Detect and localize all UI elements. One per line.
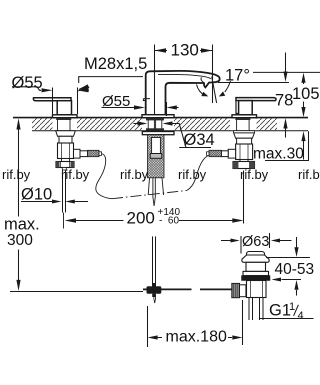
left valve bottom nut [62, 159, 70, 162]
dim 105 line [303, 81, 305, 109]
svg-text:Ø34: Ø34 [184, 131, 215, 149]
max300 bottom ref line [10, 291, 143, 293]
svg-text:G1: G1 [269, 302, 291, 320]
smooth tube inset [152, 138, 161, 154]
right valve side port [228, 149, 235, 158]
left shank through deck [56, 118, 71, 131]
78 arrows [283, 72, 287, 83]
M28x1,5 leader [79, 77, 143, 90]
105 arrows [301, 73, 305, 83]
svg-text:rif.by: rif.by [2, 167, 31, 182]
vertical pop-up rod lower [153, 236, 156, 288]
dim Ø55 left: leader and arrows [12, 87, 41, 91]
neck [246, 262, 266, 271]
svg-text:Ø55: Ø55 [12, 74, 43, 92]
max300 arrows [16, 118, 20, 129]
left pop-up rod Ø10 [63, 170, 66, 213]
tail pipe [247, 298, 266, 321]
stud wire tails [148, 178, 163, 195]
spout flange [142, 115, 174, 118]
svg-text:rif.by: rif.by [120, 167, 149, 182]
svg-text:max.180: max.180 [166, 329, 227, 346]
svg-text:rif.by: rif.by [61, 167, 90, 182]
Ø55 left arrows [42, 88, 53, 92]
max180 dim line [157, 337, 232, 339]
17deg arc arrowheads [201, 92, 208, 97]
left handle lever [33, 98, 71, 101]
side port [240, 285, 246, 297]
left handle body [57, 101, 71, 115]
svg-text:Ø63: Ø63 [242, 234, 269, 250]
svg-text:1: 1 [289, 301, 295, 313]
drain pop-up waste [232, 252, 270, 321]
pop-up rod needle (upper) [153, 178, 155, 206]
right valve bottom nut [240, 160, 248, 162]
Ø55 center arrow [134, 105, 145, 109]
max180 extensions [148, 300, 243, 347]
dim Ø34 arrows tails [134, 123, 139, 125]
svg-text:M28x1,5: M28x1,5 [84, 55, 147, 73]
M28 leader arrow [78, 84, 90, 91]
right handle flange [232, 115, 257, 118]
17deg angle vertex slant [212, 77, 217, 104]
dim 200 line [76, 220, 234, 222]
right handle lever [236, 98, 276, 101]
dim 200 right extension [243, 171, 245, 224]
maxx300 dim line [18, 129, 20, 281]
rubber seal [242, 276, 271, 281]
svg-text:Ø10: Ø10 [21, 186, 52, 204]
dim 78 line [285, 53, 287, 138]
dim 17 ref line [218, 82, 289, 84]
svg-text:200: 200 [127, 209, 155, 228]
deck bottom line [32, 130, 308, 132]
dim Ø63 [221, 240, 292, 242]
step ring [243, 271, 269, 275]
right handle body [239, 101, 253, 115]
dim 40-53 refs [266, 257, 310, 259]
left valve shank [59, 136, 72, 143]
arrowheads [16, 48, 305, 339]
svg-text:rif.by: rif.by [298, 167, 320, 182]
200 arrows [65, 218, 76, 222]
hose dash-dot centerline [112, 191, 187, 199]
body lower [247, 281, 267, 298]
svg-text:78: 78 [275, 92, 293, 110]
dim 130 extension lines [154, 45, 156, 116]
svg-text:17°: 17° [225, 67, 250, 85]
svg-text:105: 105 [292, 85, 320, 103]
spout through-deck studs [146, 118, 164, 131]
svg-text:130: 130 [171, 41, 199, 60]
svg-text:4: 4 [298, 310, 304, 322]
Ø63 arrows [231, 239, 240, 243]
right lever side tab [236, 101, 239, 114]
dim 105 top ref line [253, 71, 320, 73]
dim Ø55 center leader [102, 107, 135, 109]
right valve shank [237, 138, 252, 144]
left mounting nut [56, 131, 76, 137]
G1 1/4 underline [259, 305, 314, 319]
left braided hose [88, 150, 100, 156]
Ø10 arrows [52, 200, 61, 204]
dim 130 line [155, 50, 213, 52]
right shank through deck [235, 118, 250, 131]
svg-text:- 60: - 60 [159, 216, 179, 227]
deck top line [13, 117, 308, 119]
right hose hanging curve [187, 156, 208, 191]
svg-text:rif.by: rif.by [240, 167, 269, 182]
svg-text:300: 300 [7, 232, 33, 249]
right valve body [236, 144, 253, 160]
svg-text:Ø55: Ø55 [102, 93, 130, 110]
under-deck washer plate [142, 132, 174, 135]
130 arrows [155, 48, 167, 52]
watermark rif.by row [2, 167, 320, 182]
deck hatching [32, 118, 277, 130]
left hose hanging curve [96, 154, 112, 199]
svg-text:max.: max. [4, 216, 40, 234]
left valve body [58, 143, 74, 159]
rod clamp joint [147, 286, 153, 294]
svg-text:40-53: 40-53 [275, 261, 315, 278]
max30 tail [303, 141, 305, 160]
spout body U-profile [143, 71, 219, 115]
17deg arc arrows [197, 81, 231, 96]
tube nut [150, 154, 162, 159]
Ø34 arrows [138, 121, 148, 125]
right braided hose [209, 150, 222, 156]
left valve side port [74, 149, 81, 158]
dim Ø10 leader [21, 201, 88, 203]
small step notch on spout left edge [143, 99, 150, 101]
dome cap [246, 252, 264, 256]
svg-text:max.30: max.30 [253, 146, 304, 163]
right mounting nut [234, 133, 255, 138]
40-53 arrows [294, 247, 298, 257]
horizontal pull rod [143, 288, 232, 290]
max30 arrow [301, 131, 305, 141]
svg-text:rif.by: rif.by [178, 167, 207, 182]
max180 arrows [148, 335, 158, 339]
left handle flange [53, 115, 78, 118]
threaded studs column [148, 135, 165, 178]
